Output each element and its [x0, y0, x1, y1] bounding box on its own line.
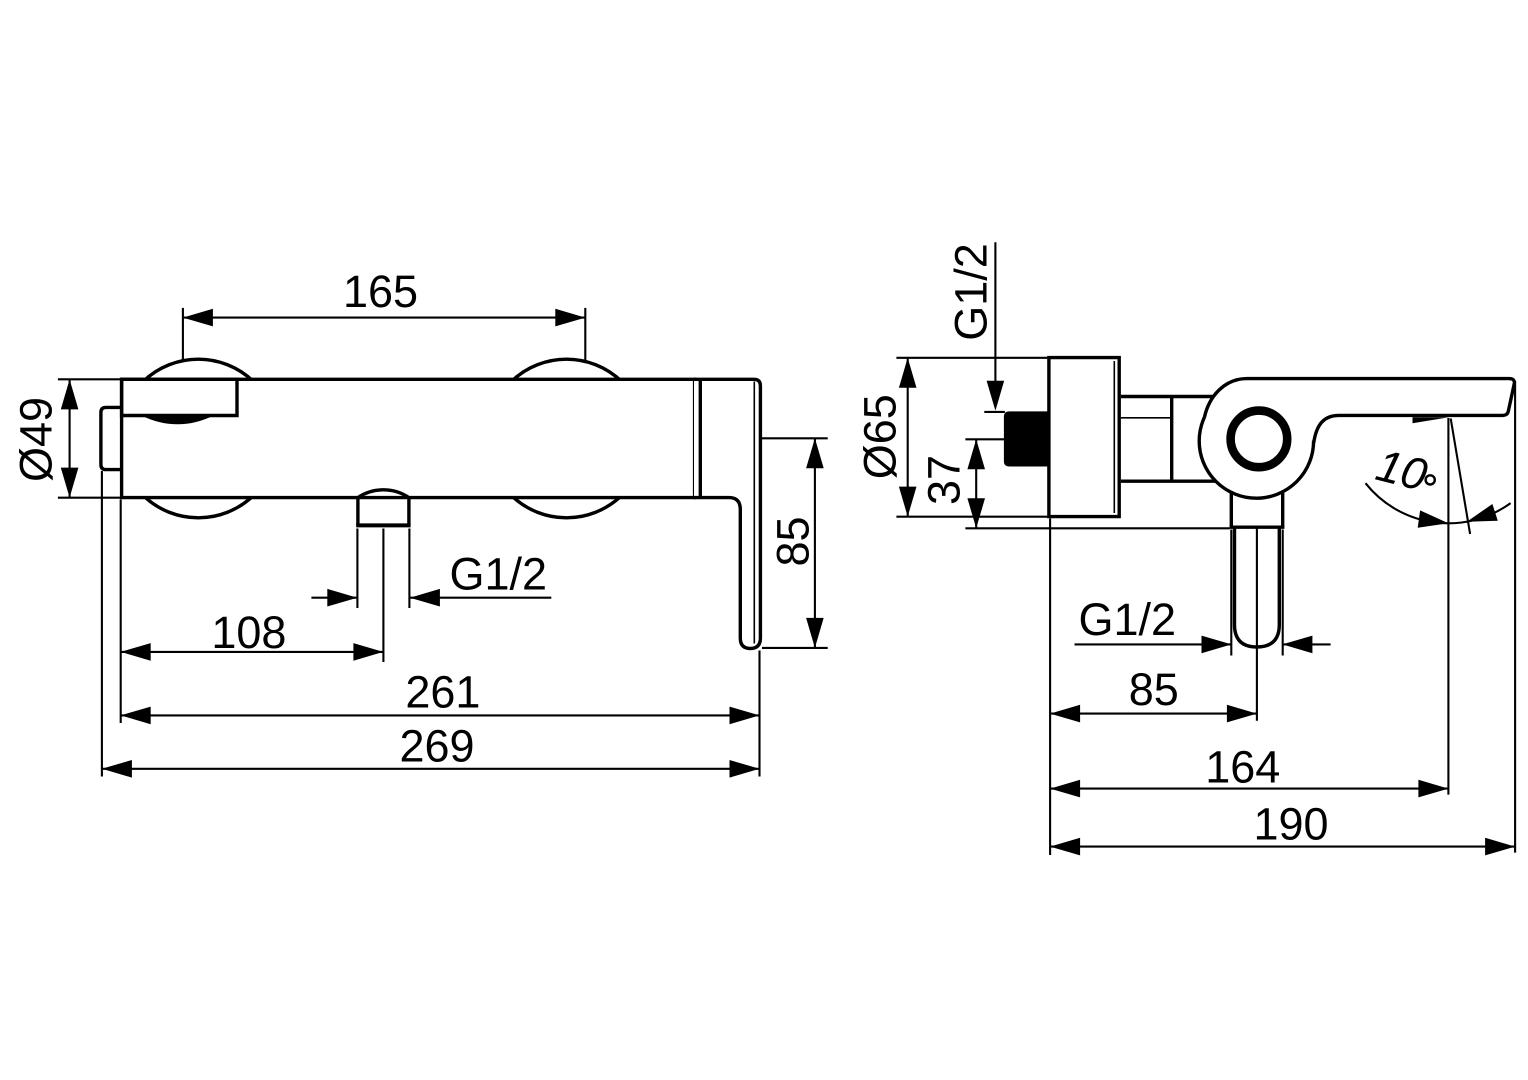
- svg-text:85: 85: [1129, 664, 1179, 715]
- svg-text:G1/2: G1/2: [946, 243, 997, 341]
- svg-text:G1/2: G1/2: [1079, 594, 1177, 645]
- svg-text:85: 85: [768, 516, 819, 566]
- svg-text:108: 108: [211, 607, 286, 658]
- svg-text:261: 261: [405, 666, 480, 717]
- svg-text:190: 190: [1253, 799, 1328, 850]
- svg-text:269: 269: [399, 721, 474, 772]
- svg-text:Ø65: Ø65: [855, 394, 906, 479]
- svg-text:G1/2: G1/2: [450, 549, 548, 600]
- svg-text:165: 165: [343, 266, 418, 317]
- svg-text:Ø49: Ø49: [11, 397, 62, 482]
- svg-text:164: 164: [1205, 742, 1280, 793]
- svg-text:37: 37: [919, 455, 970, 505]
